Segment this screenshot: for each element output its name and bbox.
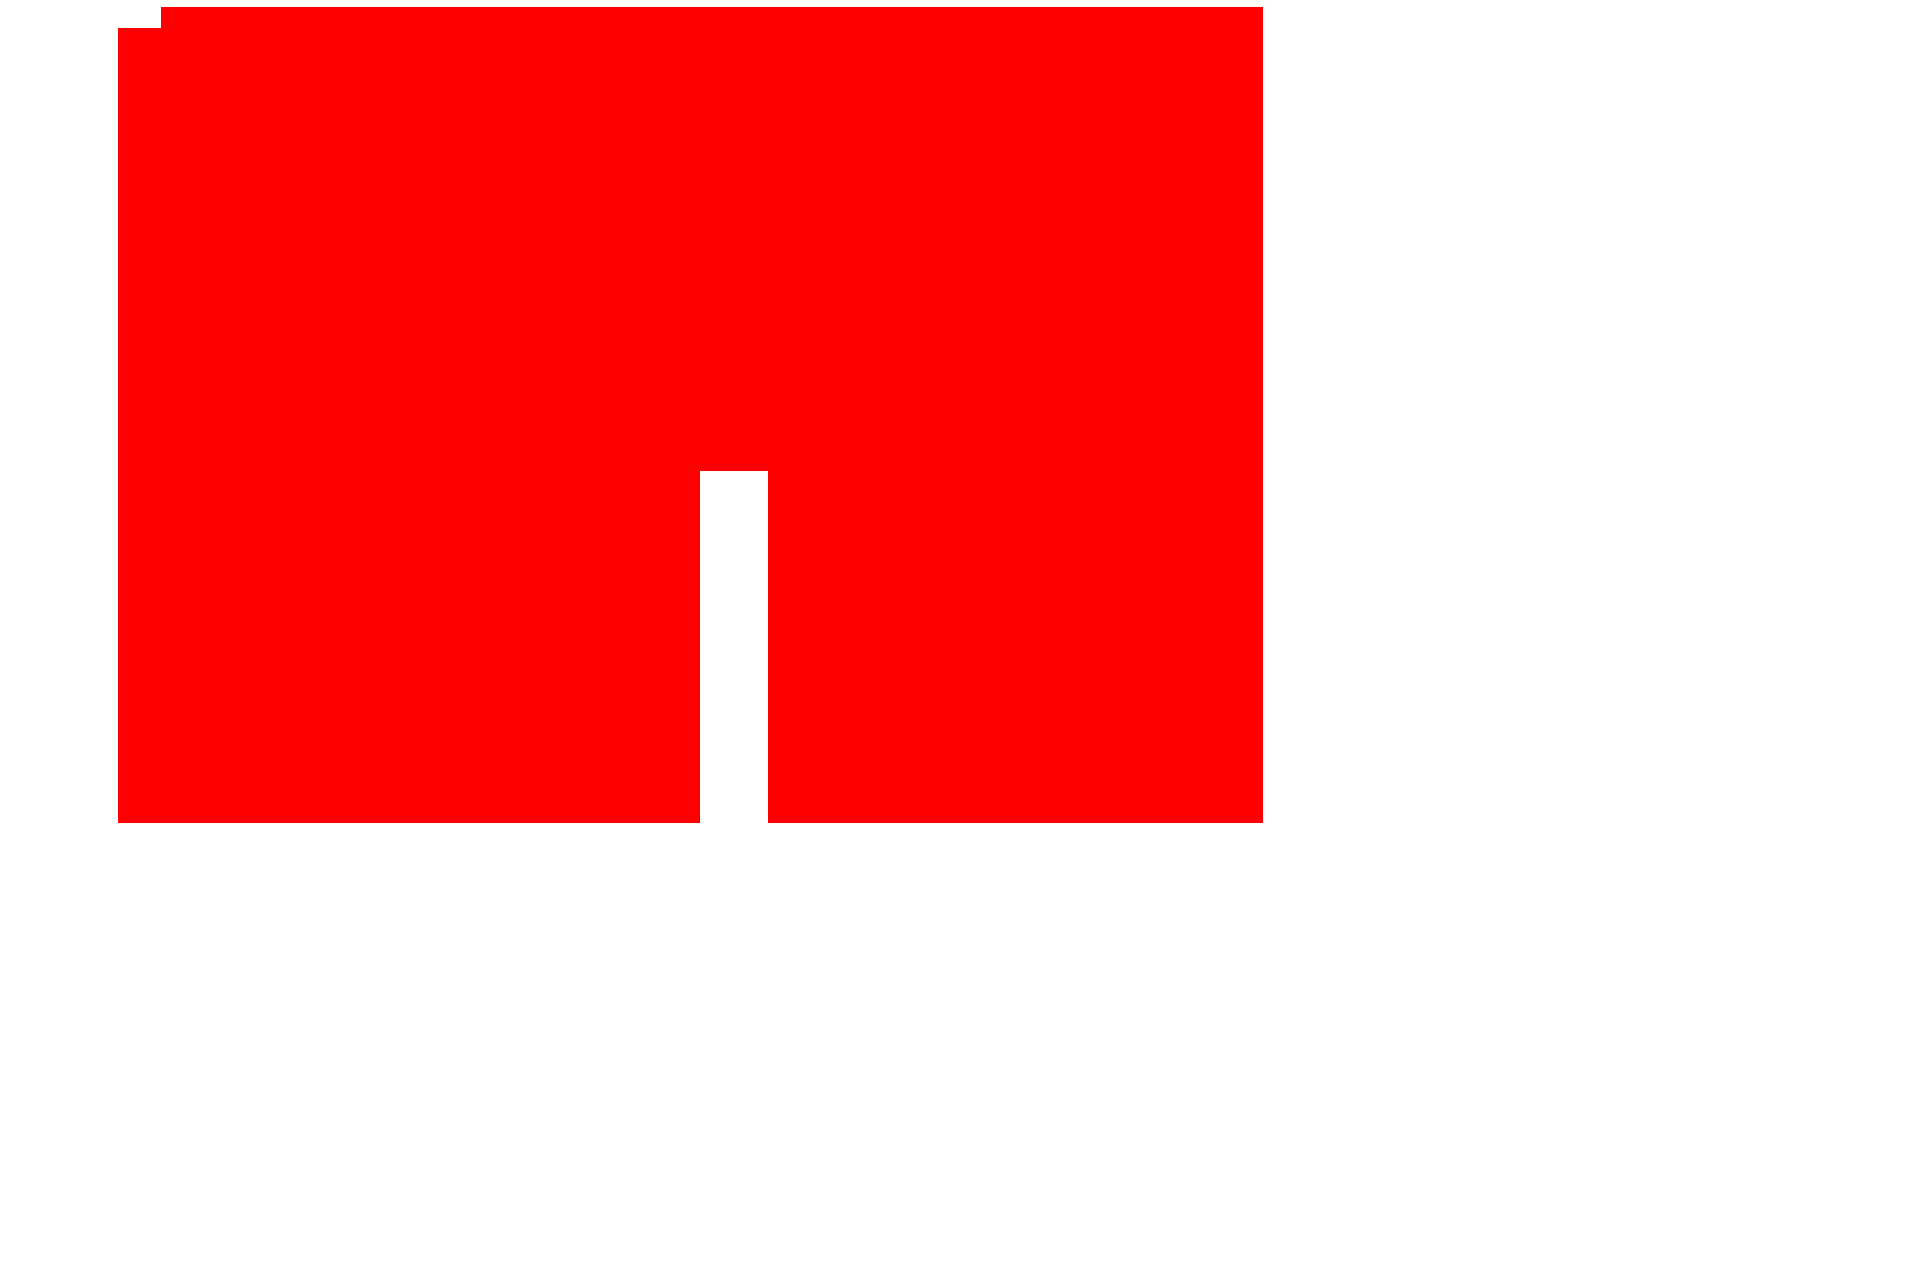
red middle column above white gap <box>700 28 768 471</box>
red main block left <box>118 28 700 823</box>
red top band <box>161 7 1263 28</box>
red main block right <box>768 28 1263 823</box>
